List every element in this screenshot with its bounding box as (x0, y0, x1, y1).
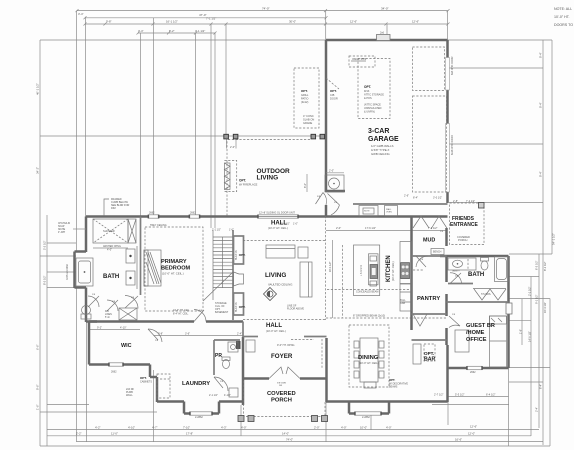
garage door opening 8x8 (446, 58, 450, 91)
svg-text:16'-1 1/2": 16'-1 1/2" (329, 261, 332, 272)
svg-text:GARAGE: GARAGE (368, 136, 399, 143)
svg-text:3'-4": 3'-4" (138, 29, 144, 33)
svg-text:2x6: 2x6 (380, 32, 385, 35)
svg-text:VANITY: VANITY (452, 270, 460, 273)
bedroom-bath divider wall (140, 217, 142, 296)
foyer north wall stub right (304, 336, 327, 338)
svg-text:BAR: BAR (424, 357, 435, 363)
top vertical extension x213.5 (210, 24, 212, 228)
guest closet boxes (455, 330, 469, 352)
svg-text:4'-10": 4'-10" (128, 425, 135, 429)
pr sink box (228, 342, 238, 352)
garage door opening 8x18 (446, 124, 450, 193)
wic window 2662 (109, 363, 123, 366)
svg-text:7'-1 1/2": 7'-1 1/2" (206, 17, 216, 21)
bath2 sink dot (457, 263, 459, 265)
svg-text:9'-8": 9'-8" (158, 333, 163, 336)
living hall dashed lower (243, 319, 325, 321)
island prep boxes (370, 281, 377, 286)
svg-text:4'-3": 4'-3" (221, 425, 227, 429)
svg-text:8'-5 1/2": 8'-5 1/2" (43, 275, 47, 285)
guest wing right wall (507, 256, 510, 368)
right horiz dim y276.5 (509, 276, 539, 278)
right vertical dim x550 (549, 299, 551, 447)
tub alcove left wall (73, 252, 76, 289)
tray ceiling dashed box (145, 227, 203, 311)
svg-text:D/R: D/R (105, 311, 109, 313)
dining bay left (348, 402, 351, 414)
stair center guide line (222, 237, 224, 288)
interior dim y329.5 bath (89, 329, 140, 331)
svg-text:9'-4": 9'-4" (539, 52, 543, 58)
dining bay right (388, 402, 391, 414)
hall-foyer east wall (242, 322, 244, 338)
bath2 sink oval (453, 260, 463, 267)
svg-text:SLAB ON: SLAB ON (303, 118, 314, 122)
right horiz dim y68 (448, 67, 543, 69)
top vertical extension x195.5 (195, 33, 197, 216)
top dim line 30'-0" row (85, 23, 448, 25)
left vertical dim x86.5 lower (86, 322, 88, 442)
kitchen dashed floor-above line (342, 245, 344, 318)
pantry shelves dashes (413, 269, 423, 271)
svg-text:DIM: DIM (111, 207, 116, 210)
svg-text:9'-2": 9'-2" (97, 327, 102, 330)
svg-text:12'-0": 12'-0" (468, 432, 475, 436)
SECTION: walls (75, 35, 513, 422)
bath left wall lower (85, 288, 88, 323)
top vertical extension x326 (325, 11, 327, 40)
svg-text:2'-1 1/2": 2'-1 1/2" (528, 286, 532, 296)
sliding door center line (258, 216, 298, 218)
top vertical extension x153.5 (153, 18, 155, 216)
bottom dim y446 (40, 445, 550, 447)
garage top wall (326, 39, 448, 42)
pantry south wall (412, 313, 447, 315)
opt cabinets leader (160, 378, 170, 380)
friends porch post (479, 203, 485, 209)
wic east wall (149, 365, 152, 378)
svg-text:DR: DR (279, 385, 283, 387)
svg-text:VAULTED CEILING: VAULTED CEILING (268, 283, 292, 287)
svg-text:T/S DRS.: T/S DRS. (481, 293, 491, 296)
right vertical dim x539 (538, 254, 540, 428)
burner dots (402, 266, 405, 269)
horiz dim y134 (40, 135, 326, 137)
svg-text:9'-0" HT. OPNG: 9'-0" HT. OPNG (277, 344, 295, 347)
porch post b (248, 416, 254, 422)
svg-text:10'-0" HT.: 10'-0" HT. (554, 15, 570, 19)
svg-text:PR: PR (215, 353, 222, 359)
ts closet doors W (474, 289, 506, 300)
svg-text:10'-0": 10'-0" (360, 425, 367, 429)
laundry sink (229, 388, 238, 397)
svg-text:6'-6": 6'-6" (36, 344, 40, 350)
bottom dim y404 left (47, 404, 89, 406)
svg-text:GWB CEILING: GWB CEILING (371, 152, 390, 156)
window 2662 a (149, 215, 159, 218)
garage bottom wall left stub (326, 190, 345, 193)
svg-text:4'-2": 4'-2" (95, 425, 101, 429)
pr wall top (214, 339, 240, 341)
svg-text:8" DROPPED BEAM (2x10): 8" DROPPED BEAM (2x10) (353, 314, 385, 318)
right vertical dim x543 (542, 40, 544, 445)
laundry machines dashes (157, 374, 170, 398)
svg-text:4'-0": 4'-0" (386, 425, 392, 429)
bath2 vanity (448, 258, 476, 270)
bath vanity sink dot lower (129, 277, 131, 279)
svg-text:4'-1/2": 4'-1/2" (224, 394, 231, 397)
svg-text:LINEN: LINEN (105, 314, 112, 316)
svg-text:FOYER: FOYER (271, 353, 293, 360)
svg-text:ENTRANCE: ENTRANCE (450, 222, 478, 228)
svg-text:2662: 2662 (470, 371, 476, 374)
kitchen tall cabinets (400, 284, 412, 311)
left wing: bath left wall upper (85, 217, 88, 253)
closet shelf line (473, 288, 506, 290)
foyer north wall stub left (243, 336, 258, 338)
svg-text:WIC: WIC (121, 343, 132, 349)
stairs treads (213, 237, 233, 287)
wall oven box (385, 206, 398, 217)
right top dim extension (448, 39, 552, 41)
front double door (269, 367, 300, 379)
svg-text:4'-7": 4'-7" (152, 425, 158, 429)
right vertical dim x531 (530, 277, 532, 437)
svg-text:34'-0": 34'-0" (381, 7, 389, 11)
svg-text:2'-1 1/2": 2'-1 1/2" (209, 394, 218, 397)
sofa top back line (266, 248, 295, 250)
svg-text:TREY CEILING: TREY CEILING (150, 224, 167, 227)
top dim line 47'-0" (85, 17, 326, 19)
top dim line 8'-2" row (138, 32, 215, 34)
svg-text:14'-0": 14'-0" (282, 432, 289, 436)
right vertical dim x522 (521, 299, 523, 346)
svg-text:BUILT-IN: BUILT-IN (235, 302, 238, 312)
svg-text:BUILT-IN: BUILT-IN (235, 250, 238, 260)
island inner counter (369, 254, 379, 285)
svg-text:2'-1 1/2": 2'-1 1/2" (212, 229, 221, 232)
interior dim y335.5 hall (154, 335, 244, 337)
svg-text:PORCH: PORCH (271, 398, 292, 404)
foyer opening dashed top (291, 339, 314, 341)
svg-text:8'-1 1/2": 8'-1 1/2" (543, 261, 547, 271)
vertical dim x140.5 (140, 33, 142, 216)
bottom vertical ext x508.5 (508, 368, 510, 446)
dining ceiling dashed box (349, 325, 389, 387)
living sofa top (266, 245, 295, 258)
tub dot (84, 271, 86, 273)
stair niche hex (234, 272, 244, 286)
svg-text:8x18 OHD DOOR: 8x18 OHD DOOR (451, 135, 454, 155)
svg-text:9'-8": 9'-8" (106, 19, 112, 23)
svg-text:8x8 OHD DOOR: 8x8 OHD DOOR (451, 56, 454, 75)
bottom vertical ext x371 (370, 414, 372, 430)
svg-text:54'-1 1/2": 54'-1 1/2" (552, 233, 556, 245)
bedroom south wall (89, 320, 194, 323)
island sink (370, 265, 378, 279)
svg-text:PRIMARY: PRIMARY (161, 259, 187, 265)
foyer front wall stubs (243, 377, 269, 380)
right horiz dim y382 (509, 381, 543, 383)
primary tub inner (79, 261, 91, 283)
svg-text:PANTRY: PANTRY (417, 296, 440, 302)
laundry bottom wall right (219, 400, 243, 403)
svg-text:SHOWER: SHOWER (103, 229, 115, 233)
svg-text:KOHLER 6032: KOHLER 6032 (66, 264, 69, 280)
bar dash box (424, 344, 435, 361)
sofa right back line (308, 262, 310, 297)
shower hatch column right (128, 219, 136, 243)
svg-text:DINING: DINING (358, 355, 379, 361)
laundry west wall (156, 377, 159, 402)
wic door swing (148, 329, 162, 342)
svg-text:16'-4 1/2": 16'-4 1/2" (543, 302, 547, 313)
svg-text:3'-1 1/2": 3'-1 1/2" (195, 29, 205, 33)
bath2 vanity dashes (467, 259, 469, 269)
svg-text:(10'-0" HT. CEIL): (10'-0" HT. CEIL) (391, 261, 395, 281)
right horiz dim y320.7 (509, 320, 531, 322)
outdoor living dashed left edge (226, 138, 228, 217)
garage-outdoor wall lower stub (325, 205, 328, 217)
bath2 south wall (448, 283, 473, 285)
bath vanity upper (126, 249, 135, 263)
svg-text:2'-0": 2'-0" (329, 170, 334, 173)
svg-text:9'-1 1/2": 9'-1 1/2" (535, 294, 539, 304)
kitchen island (354, 245, 380, 296)
svg-text:(10'-0" HT. CEIL.): (10'-0" HT. CEIL.) (266, 329, 286, 333)
svg-text:7'-2 1/2": 7'-2 1/2" (466, 200, 475, 203)
dining buffet (364, 382, 376, 388)
bath2 tub (495, 257, 509, 282)
porch post c (312, 416, 318, 422)
wic left wall (88, 322, 91, 365)
bar top wall (412, 339, 447, 341)
svg-text:BASEMENT: BASEMENT (215, 311, 229, 314)
bottom dim y441.5 (77, 441, 544, 443)
svg-text:GRADE: GRADE (303, 121, 312, 125)
framed curb leader (104, 199, 109, 216)
svg-text:17'-6 1/2": 17'-6 1/2" (365, 226, 376, 230)
living right interior dim (332, 240, 334, 318)
left wing interior dims (47, 242, 76, 244)
svg-text:11'-0": 11'-0" (111, 432, 118, 436)
svg-text:2'-6": 2'-6" (404, 195, 409, 198)
garage left wall (325, 40, 328, 192)
guest door swing (449, 316, 460, 328)
laundry bottom wall (157, 400, 184, 403)
bath vanity sink dot upper (129, 255, 131, 257)
svg-text:(9x12): (9x12) (301, 100, 308, 104)
foyer front wall stub right (300, 377, 327, 380)
svg-text:GUEST BR: GUEST BR (466, 323, 495, 329)
top dim line 74'-0" (77, 10, 448, 12)
svg-text:17'-8": 17'-8" (186, 432, 193, 436)
laundry bay window 2-2862 (190, 412, 212, 415)
pr toilet (223, 360, 230, 369)
opt fireplace dashed box (224, 161, 236, 192)
svg-text:46'-1 1/2": 46'-1 1/2" (36, 83, 40, 95)
svg-text:16'-1 1/2": 16'-1 1/2" (166, 19, 178, 23)
svg-text:OPT.: OPT. (239, 305, 246, 309)
east counter strip (400, 242, 412, 284)
svg-text:LAUNDRY: LAUNDRY (182, 381, 210, 387)
porch dashed outline (244, 381, 326, 417)
svg-text:1'-9": 1'-9" (519, 329, 523, 334)
svg-text:INSUL. POS.: INSUL. POS. (352, 58, 367, 61)
bath2 toilet (481, 261, 488, 270)
svg-text:MUD: MUD (423, 238, 435, 244)
bath2 toilet tank (481, 258, 489, 262)
dining chairs right (379, 341, 384, 378)
svg-text:FLOOR ABOVE: FLOOR ABOVE (287, 308, 304, 311)
foyer left wall (242, 337, 245, 405)
bar counter (413, 344, 421, 364)
svg-text:/HOME: /HOME (466, 330, 485, 336)
bedroom south wall right part (206, 320, 243, 323)
foyer opening dashed x322 (321, 339, 323, 368)
left vertical dim line x47 (46, 215, 48, 446)
svg-text:8'-2": 8'-2" (169, 29, 175, 33)
living sofa right (300, 262, 312, 297)
left vertical dim line x76.5 (76, 11, 78, 252)
svg-text:3'-0 1/2": 3'-0 1/2" (433, 197, 442, 200)
svg-text:4" APP: 4" APP (58, 231, 66, 234)
svg-text:3-CAR: 3-CAR (368, 128, 389, 135)
bottom vertical ext x326 (325, 402, 327, 442)
window 2662 b (190, 215, 200, 218)
bedroom door swing c (125, 296, 138, 309)
svg-text:DOOR: DOOR (330, 97, 338, 101)
svg-text:NOTE: NOTE (364, 211, 370, 213)
water heater dot (333, 183, 335, 185)
porch post d (322, 416, 328, 422)
svg-text:(10'-0" HT. CEIL.): (10'-0" HT. CEIL.) (162, 272, 184, 276)
insul pos inner line (351, 60, 366, 62)
friends entrance dashed porch outline (450, 203, 485, 245)
svg-text:OPT.: OPT. (330, 89, 337, 93)
bottom dim y429.5 (47, 429, 539, 431)
tub alcove top (75, 250, 87, 253)
guest wing bottom wall (448, 367, 509, 370)
primary toilet tank (81, 314, 91, 319)
right horiz dim y202 (449, 202, 543, 204)
wic-laundry step (150, 376, 157, 379)
svg-text:NICHE: NICHE (58, 229, 66, 231)
dim ticks top (76, 9, 450, 34)
builtin upper box (234, 236, 244, 264)
right horiz dim y298.6 (509, 298, 550, 300)
svg-text:BENCH: BENCH (433, 251, 442, 254)
dining chairs left (354, 341, 359, 378)
bath door swing b (107, 300, 118, 311)
sliding door opening (258, 215, 298, 218)
svg-text:30'-0": 30'-0" (289, 19, 296, 23)
svg-text:(10'-0" HT. CEIL.): (10'-0" HT. CEIL.) (268, 226, 288, 230)
svg-text:4'-0": 4'-0" (107, 249, 112, 252)
water heater box garage corner (325, 175, 344, 192)
svg-text:2'-8": 2'-8" (453, 200, 458, 203)
stairs break diagonal (203, 272, 233, 301)
svg-text:WALL: WALL (126, 394, 133, 397)
svg-text:12'+8' SLIDING GL DOOR UNIT: 12'+8' SLIDING GL DOOR UNIT (259, 212, 295, 215)
bath door swing a (88, 296, 99, 307)
cb door dash swing (326, 78, 339, 89)
garage chimney box on top wall (377, 35, 391, 41)
svg-text:7'-10": 7'-10" (183, 425, 190, 429)
svg-text:2'-4": 2'-4" (237, 333, 242, 336)
mud bench (431, 249, 444, 255)
svg-text:2'-0": 2'-0" (314, 425, 320, 429)
svg-text:5'-2 1/2": 5'-2 1/2" (43, 240, 47, 250)
svg-text:OPT.: OPT. (364, 85, 371, 89)
hall corridor wall x446.5 (445, 228, 448, 246)
svg-text:2662: 2662 (190, 212, 196, 215)
opt fireplace hatch strip (224, 163, 230, 189)
insul pos dashed box (349, 56, 375, 67)
svg-text:7'-3 1/2": 7'-3 1/2" (428, 226, 438, 230)
guest window 2662 (467, 366, 482, 369)
svg-text:CONCEALED BEAM: CONCEALED BEAM (356, 290, 378, 293)
sliding door interior dim (306, 174, 308, 192)
outdoor living post a (224, 134, 229, 139)
dining table (360, 338, 378, 382)
svg-text:L S R M D: L S R M D (360, 265, 363, 276)
wic bottom wall (89, 363, 150, 366)
right vertical dim x552 (551, 40, 553, 254)
opt grill patio dashed box (294, 68, 319, 128)
svg-text:C/B: C/B (330, 93, 335, 97)
svg-text:9'-4": 9'-4" (539, 171, 543, 177)
range box corridor (359, 206, 378, 217)
bath vanity lower (126, 271, 135, 285)
svg-text:PATIO: PATIO (301, 97, 308, 101)
svg-text:3'-6": 3'-6" (185, 333, 190, 336)
mud-bath divider y256 (440, 255, 509, 258)
right horiz dim y254 (509, 253, 552, 255)
svg-text:2'-7 1/2": 2'-7 1/2" (434, 393, 444, 397)
svg-text:3'-4": 3'-4" (78, 12, 84, 16)
svg-text:4'-0": 4'-0" (241, 425, 247, 429)
kitchen right wall (410, 217, 413, 331)
garage door track dashed box lower (413, 96, 447, 192)
bath bottom wall (86, 320, 97, 323)
bottom vertical ext x153.5 (153, 370, 155, 442)
svg-text:74'-0": 74'-0" (286, 437, 293, 441)
svg-text:BEAMS: BEAMS (389, 386, 398, 389)
mud corridor top wall (353, 203, 448, 205)
outdoor living post b (233, 134, 238, 139)
svg-text:2'-0": 2'-0" (336, 226, 341, 230)
pantry door W (413, 314, 427, 326)
svg-text:W/ FIREPLACE: W/ FIREPLACE (239, 183, 258, 187)
svg-text:2-2862: 2-2862 (362, 416, 370, 419)
dining west wall (325, 338, 328, 402)
svg-text:OPT.: OPT. (301, 89, 308, 93)
svg-text:16'-6": 16'-6" (455, 437, 462, 441)
stairs left rail (212, 230, 214, 300)
side table (298, 247, 308, 258)
dropped beam dashed (326, 317, 447, 319)
svg-text:4'-0": 4'-0" (341, 425, 347, 429)
bath2 door swing (450, 273, 462, 284)
bar east wall (446, 345, 449, 402)
svg-text:OFFICE: OFFICE (466, 337, 487, 343)
svg-text:2662: 2662 (149, 212, 155, 215)
svg-text:HALL: HALL (266, 323, 282, 329)
svg-text:OPT.: OPT. (140, 376, 147, 380)
svg-text:NOTE: ALL: NOTE: ALL (554, 7, 572, 11)
